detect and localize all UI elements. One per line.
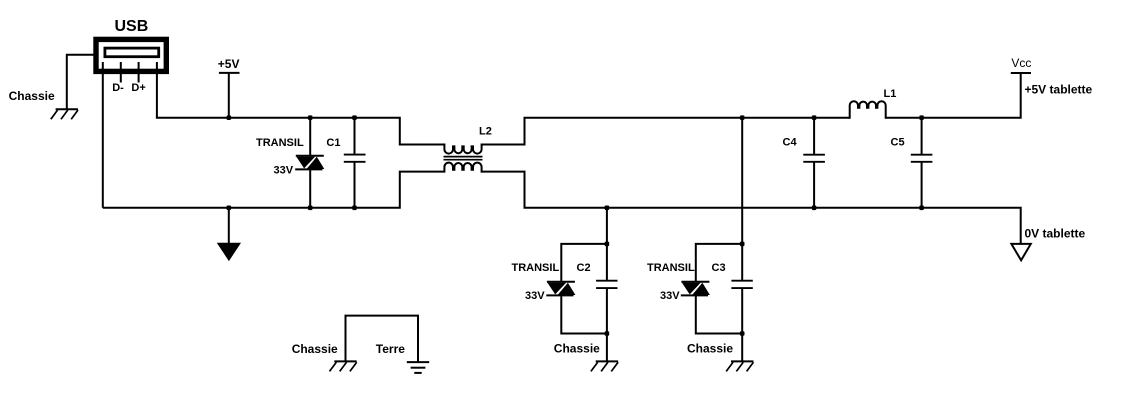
node D2 bottom junction bbox=[605, 331, 610, 336]
svg-text:D-: D- bbox=[112, 82, 124, 94]
node C5 top junction bbox=[919, 115, 924, 120]
svg-text:USB: USB bbox=[115, 18, 149, 35]
chassis ground (C2) bbox=[591, 361, 618, 371]
svg-text:Chassie: Chassie bbox=[687, 341, 733, 355]
svg-text:TRANSIL: TRANSIL bbox=[256, 137, 304, 149]
svg-text:C3: C3 bbox=[712, 262, 726, 274]
svg-text:C1: C1 bbox=[326, 137, 340, 149]
node D1 bottom junction bbox=[308, 206, 313, 211]
svg-text:Terre: Terre bbox=[376, 342, 405, 356]
power ground (solid triangle) bbox=[218, 243, 240, 260]
svg-text:L2: L2 bbox=[479, 125, 492, 137]
USB pin 2 (D-) stub bbox=[120, 62, 122, 83]
wire C2 branch vertical bbox=[606, 208, 608, 281]
capacitor C4 bbox=[813, 118, 815, 155]
node D1 top junction bbox=[308, 115, 313, 120]
USB pin 3 (D+) stub bbox=[138, 62, 140, 83]
capacitor C1 bbox=[354, 118, 356, 155]
wire top rail right section bbox=[482, 118, 850, 145]
svg-text:Chassie: Chassie bbox=[554, 341, 600, 355]
0V terminal (open triangle) bbox=[1011, 244, 1030, 260]
svg-text:C2: C2 bbox=[577, 262, 591, 274]
transil D3 wires bbox=[696, 244, 742, 282]
node D3 bottom junction bbox=[740, 331, 745, 336]
capacitor C2 plates bbox=[596, 280, 617, 282]
svg-text:Vcc: Vcc bbox=[1011, 56, 1031, 70]
Vcc terminal bar bbox=[1011, 72, 1031, 74]
node C5 bottom junction bbox=[919, 206, 924, 211]
wire ground stub bbox=[228, 208, 230, 244]
transil D1 wires bbox=[309, 118, 311, 156]
wire bottom rail left section bbox=[103, 172, 445, 208]
transil D1 symbol bbox=[295, 156, 324, 170]
wire C3 branch vertical (crosses bottom rail, no junction) bbox=[741, 118, 743, 281]
wire USB shell to chassis bbox=[67, 55, 94, 109]
svg-text:33V: 33V bbox=[274, 164, 294, 176]
+5V terminal bar and stub bbox=[219, 72, 240, 74]
svg-text:+5V tablette: +5V tablette bbox=[1025, 83, 1093, 97]
node C2 branch junction on bottom rail bbox=[605, 206, 610, 211]
svg-text:TRANSIL: TRANSIL bbox=[512, 262, 560, 274]
chassis ground (legend) bbox=[330, 361, 357, 371]
inductor L2 top winding bbox=[444, 144, 481, 154]
USB pin 1 wire (VBUS) down to bottom rail bbox=[102, 62, 104, 208]
transil D3 symbol bbox=[681, 282, 710, 296]
chassis ground (left) bbox=[51, 109, 78, 119]
USB pin 4 wire (GND) down to top rail bbox=[156, 62, 158, 118]
node ground stub junction bbox=[227, 206, 232, 211]
svg-text:C5: C5 bbox=[891, 136, 905, 148]
node C4 top junction bbox=[812, 115, 817, 120]
svg-text:C4: C4 bbox=[783, 136, 798, 148]
node D3 top junction bbox=[740, 242, 745, 247]
svg-text:Chassie: Chassie bbox=[9, 89, 55, 103]
earth ground (Terre) bbox=[407, 362, 429, 373]
transil D2 symbol bbox=[546, 282, 575, 296]
capacitor C3 plates bbox=[731, 280, 752, 282]
node C4 bottom junction bbox=[812, 206, 817, 211]
svg-text:+5V: +5V bbox=[218, 57, 240, 71]
legend bracket wire bbox=[346, 316, 419, 362]
svg-text:L1: L1 bbox=[884, 88, 897, 100]
svg-text:Chassie: Chassie bbox=[292, 342, 338, 356]
inductor L2 core bbox=[444, 156, 483, 158]
chassis ground (C3) bbox=[726, 361, 753, 371]
node +5V rail junction bbox=[227, 115, 232, 120]
transil D2 wires bbox=[561, 244, 607, 282]
wire top rail left section bbox=[156, 118, 445, 145]
svg-text:33V: 33V bbox=[525, 290, 545, 302]
inductor L1 bbox=[850, 101, 886, 118]
svg-text:TRANSIL: TRANSIL bbox=[647, 262, 695, 274]
node C3 branch junction on top rail bbox=[740, 115, 745, 120]
USB connector J1 inner tongue bbox=[105, 48, 159, 57]
node C1 top junction bbox=[352, 115, 357, 120]
svg-text:0V tablette: 0V tablette bbox=[1025, 227, 1086, 241]
node D2 top junction bbox=[605, 242, 610, 247]
USB connector J1 outer shell bbox=[96, 39, 166, 71]
node C1 bottom junction bbox=[352, 206, 357, 211]
svg-text:33V: 33V bbox=[660, 290, 680, 302]
capacitor C5 bbox=[921, 118, 923, 155]
inductor L2 bottom winding bbox=[444, 163, 481, 173]
svg-text:D+: D+ bbox=[131, 82, 145, 94]
wire bottom rail right section bbox=[482, 172, 1021, 244]
